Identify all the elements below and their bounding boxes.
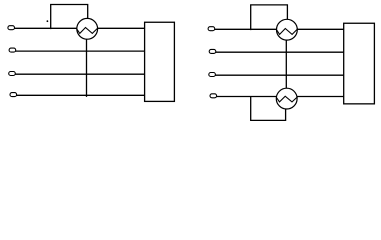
wire bbox=[14, 27, 77, 29]
network box N2 bbox=[344, 23, 375, 104]
terminal T5 bbox=[208, 27, 215, 31]
wire bbox=[97, 27, 144, 29]
wire bbox=[216, 96, 276, 98]
network box N1 bbox=[145, 22, 175, 101]
wire bbox=[215, 74, 344, 76]
terminal T6 bbox=[209, 49, 216, 53]
wire bbox=[15, 73, 145, 75]
AC source G2 bbox=[276, 19, 298, 40]
wire bbox=[297, 28, 344, 30]
terminal T8 bbox=[210, 94, 217, 98]
wire bbox=[216, 51, 344, 53]
wire bbox=[215, 28, 277, 30]
wire bbox=[86, 39, 88, 97]
wire bbox=[16, 94, 144, 96]
AC source G3 bbox=[276, 88, 297, 109]
terminal T2 bbox=[9, 48, 16, 52]
wire bbox=[251, 97, 286, 121]
wire bbox=[251, 5, 288, 30]
terminal T7 bbox=[209, 73, 216, 77]
junction dot bbox=[47, 20, 49, 22]
terminal T4 bbox=[10, 93, 17, 97]
terminal T1 bbox=[8, 26, 15, 30]
terminal T3 bbox=[9, 72, 16, 76]
wire bbox=[51, 5, 88, 30]
wire bbox=[285, 40, 287, 88]
AC source G1 bbox=[77, 18, 99, 39]
wire bbox=[16, 50, 145, 52]
wire bbox=[297, 96, 344, 98]
